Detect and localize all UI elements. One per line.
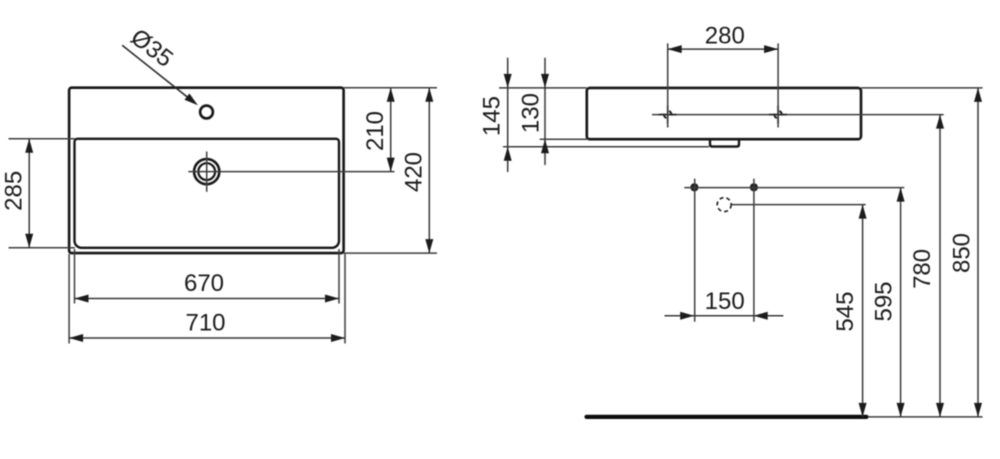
arrow 210 down: [387, 158, 395, 172]
arrow 670 left: [75, 295, 89, 303]
waste outlet line to 545: [731, 204, 866, 206]
dim line 150: [665, 315, 784, 317]
drain outer circle: [194, 159, 219, 184]
fixing dot right vertical: [753, 179, 755, 322]
ext line 145/130 top: [499, 87, 587, 89]
dim line 130: [544, 58, 546, 165]
ext line 670 right: [338, 249, 340, 304]
drain stub (side view): [710, 139, 739, 146]
leader arrowhead: [185, 94, 198, 106]
arrow 595 up: [897, 188, 905, 202]
waste outlet dashed circle: [717, 198, 731, 212]
drain crosshair vertical: [206, 152, 208, 192]
svg-text:710: 710: [185, 310, 225, 337]
dim line 210: [390, 88, 392, 172]
arrow 710 left: [69, 334, 83, 342]
arrow 285 down: [25, 234, 33, 248]
fixing dot left vertical: [694, 179, 696, 322]
leader line O35: [122, 45, 189, 98]
dim line 670: [75, 298, 340, 300]
arrow 130 top: [541, 74, 549, 88]
ext line 280 left: [667, 43, 669, 127]
svg-text:850: 850: [949, 233, 976, 273]
drain inner circle: [198, 163, 215, 180]
fixing dots line to 595: [684, 187, 904, 189]
ext line 130 bottom: [540, 138, 588, 140]
svg-text:130: 130: [518, 93, 545, 133]
svg-text:280: 280: [705, 22, 745, 49]
arrow 130 bottom: [541, 139, 549, 153]
dim line 285: [28, 139, 30, 248]
dim line 780: [939, 115, 941, 417]
arrow 545 up: [859, 205, 867, 219]
dim line 545: [862, 205, 864, 417]
svg-text:285: 285: [1, 171, 28, 211]
svg-text:545: 545: [832, 292, 859, 332]
wall fixing dot left: [690, 183, 698, 191]
ext line 710 left: [68, 254, 70, 344]
drain center line to 210 dim: [188, 171, 394, 173]
arrow 280 left: [668, 45, 682, 53]
arrow 285 up: [25, 139, 33, 153]
svg-text:Ø35: Ø35: [125, 24, 177, 73]
svg-text:210: 210: [362, 111, 389, 151]
arrow 850 down: [974, 403, 982, 417]
arrow 420 up: [425, 88, 433, 102]
arrow 420 down: [425, 239, 433, 253]
ext line 420 top: [344, 87, 437, 89]
arrow 280 right: [764, 45, 778, 53]
svg-text:150: 150: [705, 288, 745, 315]
arrow 210 up: [387, 88, 395, 102]
arrow 150 right outside: [754, 312, 768, 320]
dim line 850: [977, 88, 979, 417]
floor line thick: [587, 415, 867, 419]
ext line 420 bottom: [344, 252, 437, 254]
basin inner bowl (front view): [75, 139, 340, 248]
top edge extension to 850: [861, 87, 983, 89]
dim line 145: [507, 58, 509, 172]
arrow 670 right: [325, 295, 339, 303]
basin body (side view): [587, 88, 861, 139]
dim line 595: [900, 188, 902, 417]
ext line 285 bottom: [9, 247, 75, 249]
dim line 280: [668, 48, 778, 50]
svg-text:420: 420: [401, 152, 428, 192]
ext line 285 top: [9, 138, 75, 140]
arrow 710 right: [331, 334, 345, 342]
arrow 595 down: [897, 403, 905, 417]
dim line 710: [69, 337, 345, 339]
arrow 145 bottom: [504, 147, 512, 161]
mounting holes line to 780: [652, 114, 944, 116]
dim line 420: [428, 88, 430, 253]
svg-text:780: 780: [909, 249, 936, 289]
arrow 780 up: [936, 115, 944, 129]
svg-text:595: 595: [870, 281, 897, 321]
tap hole: [200, 106, 213, 119]
arrow 780 down: [936, 403, 944, 417]
arrow 850 up: [974, 88, 982, 102]
arrow 150 left outside: [680, 312, 694, 320]
mounting hole left: [659, 106, 677, 124]
basin outer rim (front view): [69, 88, 344, 253]
svg-text:670: 670: [184, 270, 224, 297]
floor line thin extension: [868, 416, 983, 418]
arrow 145 top: [504, 74, 512, 88]
ext line 280 right: [777, 43, 779, 127]
ext line 145 bottom: [503, 146, 709, 148]
ext line 670 left: [74, 249, 76, 304]
mounting hole right: [769, 106, 787, 124]
svg-text:145: 145: [478, 96, 505, 136]
ext line 710 right: [344, 254, 346, 344]
wall fixing dot right: [750, 183, 758, 191]
arrow 545 down: [859, 403, 867, 417]
